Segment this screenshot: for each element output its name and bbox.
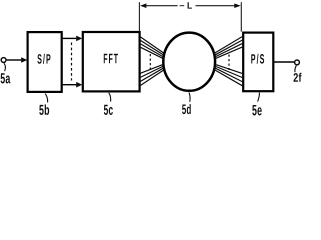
bus fan ellipse to P/S bottom wires xyxy=(214,64,242,85)
bus fan FFT to ellipse top wires xyxy=(140,37,165,59)
block FFT 5c xyxy=(83,32,140,91)
leader line for 5c xyxy=(109,93,111,102)
input terminal 5a xyxy=(1,58,6,63)
block P/S parallel-to-serial converter 5e xyxy=(243,33,273,92)
bus ellipsis dashed line S/P-FFT xyxy=(71,43,73,81)
arrowhead bottom into FFT xyxy=(76,82,82,88)
arrowhead top into FFT xyxy=(76,36,82,42)
leader line for 5e xyxy=(258,93,260,102)
leader line for 5d xyxy=(189,93,190,102)
label FFT xyxy=(104,54,118,64)
arrowhead into S/P xyxy=(21,57,27,63)
dimension extension line right xyxy=(240,2,242,31)
label 5a xyxy=(1,73,11,83)
dimension extension line left xyxy=(138,2,140,31)
leader line for 2f xyxy=(295,66,296,73)
label S/P xyxy=(37,54,50,64)
bus ellipsis dashed line ellipse-P/S xyxy=(228,55,230,71)
bus fan FFT to ellipse bottom wires xyxy=(140,64,165,85)
bus fan ellipse to P/S top wires xyxy=(214,37,242,59)
wire input to S/P xyxy=(7,59,22,61)
output terminal 2f xyxy=(295,60,300,65)
leader line for 5b xyxy=(45,94,47,103)
leader line for 5a xyxy=(4,63,5,71)
wire S/P to FFT bottom xyxy=(63,84,77,86)
dimension line left segment xyxy=(146,5,178,7)
label 5e xyxy=(252,105,261,115)
label 2f xyxy=(294,73,302,82)
dimension line dash segment xyxy=(180,5,185,7)
block S/P serial-to-parallel converter 5b xyxy=(28,32,62,92)
dimension line right segment xyxy=(196,5,236,7)
label P/S xyxy=(251,54,264,64)
wire output from P/S xyxy=(274,61,294,63)
bus ellipsis dashed line FFT-ellipse xyxy=(149,54,151,70)
dimension arrowhead right xyxy=(234,3,240,8)
wire S/P to FFT top xyxy=(63,37,77,39)
label L xyxy=(188,2,192,8)
channel ellipse 5d xyxy=(163,33,215,91)
dimension arrowhead left xyxy=(140,3,146,8)
label 5b xyxy=(39,104,49,115)
label 5d xyxy=(182,104,191,114)
label 5c xyxy=(104,105,113,115)
